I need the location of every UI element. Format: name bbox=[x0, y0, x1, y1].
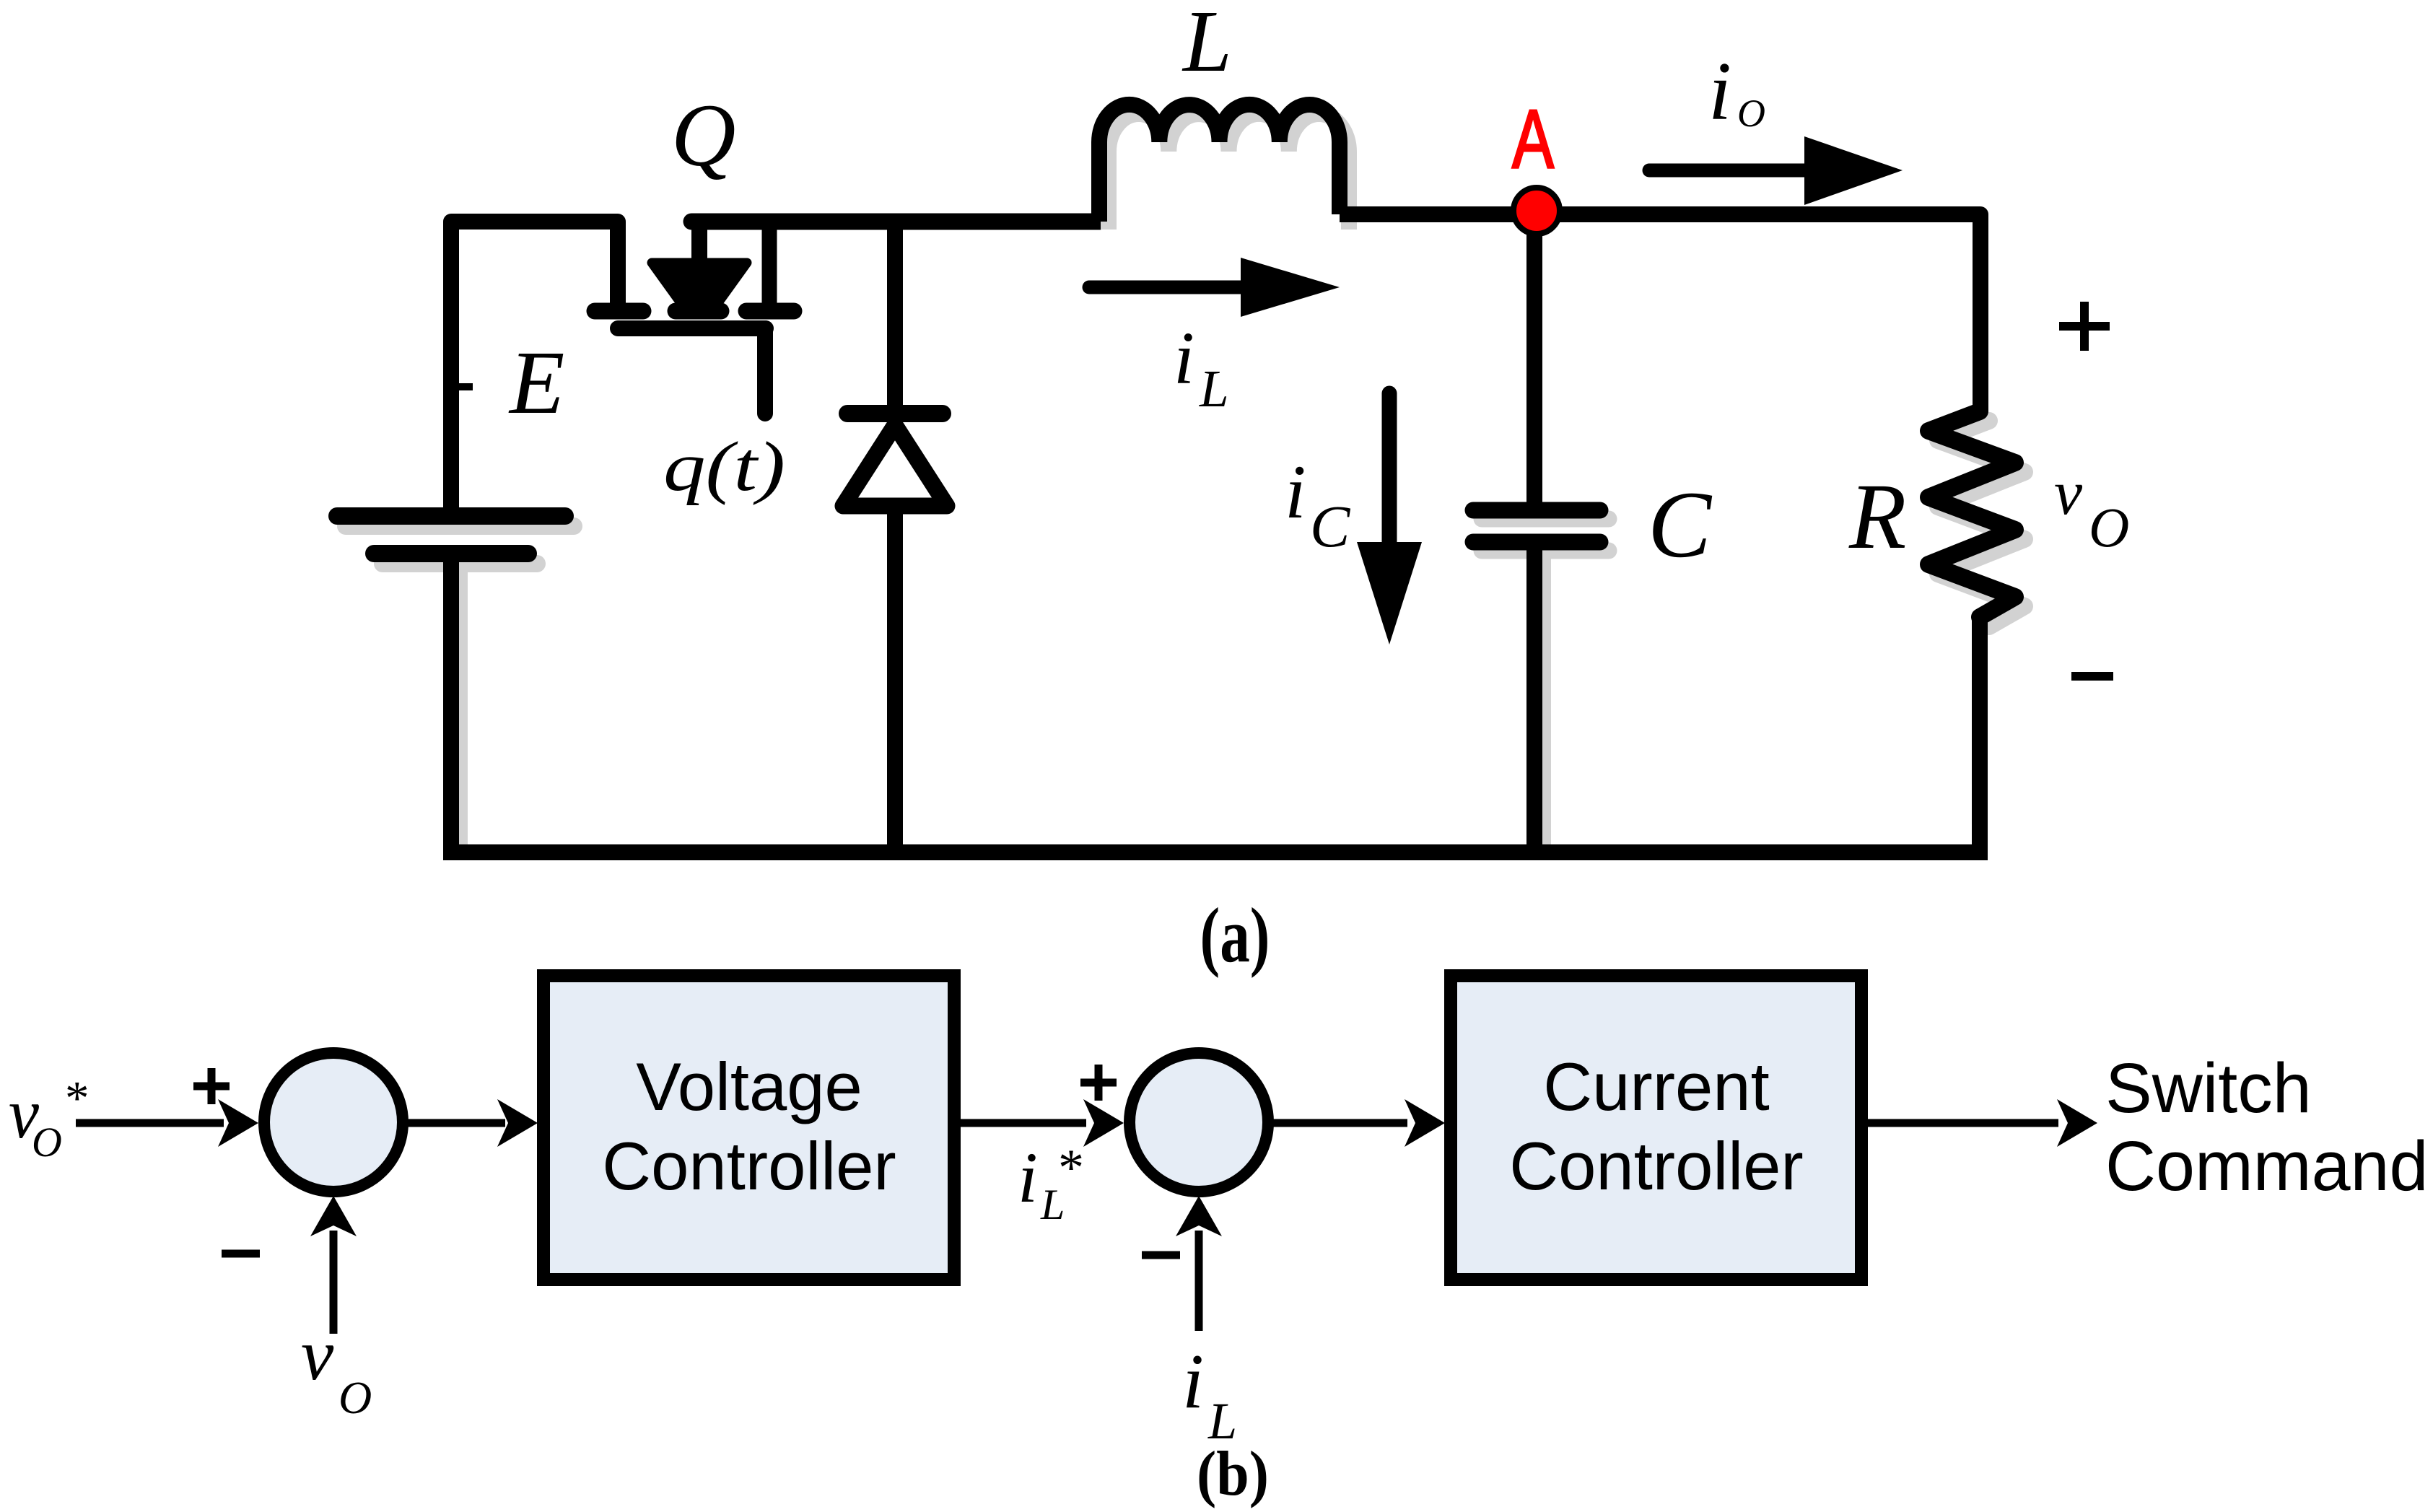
svg-text:L: L bbox=[1181, 0, 1232, 90]
current arrow iO bbox=[1649, 136, 1903, 205]
svg-text:O: O bbox=[2089, 496, 2129, 559]
right contact bar bbox=[746, 303, 794, 320]
gate lead down bbox=[757, 328, 773, 414]
wire node A to capacitor bbox=[1526, 214, 1542, 505]
svg-text:Controller: Controller bbox=[602, 1128, 896, 1204]
svg-text:A: A bbox=[1512, 93, 1554, 185]
svg-text:Switch: Switch bbox=[2105, 1049, 2312, 1127]
summing junction S2 bbox=[1130, 1053, 1268, 1192]
svg-text:Current: Current bbox=[1543, 1049, 1769, 1124]
wire resistor to bottom bbox=[1972, 617, 1988, 860]
wire input arrow to S1 bbox=[76, 1099, 258, 1147]
capacitor C bbox=[1473, 510, 1609, 852]
svg-text:i: i bbox=[1285, 450, 1306, 534]
svg-text:q(t): q(t) bbox=[663, 428, 785, 505]
svg-text:Q: Q bbox=[671, 86, 736, 185]
diode cathode bar bbox=[847, 405, 943, 422]
center contact bar bbox=[676, 303, 721, 320]
label minus at S1 bbox=[222, 1250, 260, 1258]
right vertical bbox=[762, 222, 777, 307]
label + output bbox=[2059, 302, 2110, 351]
wire bottom bbox=[443, 844, 1988, 860]
diode bottom lead bbox=[887, 505, 903, 860]
wire battery to bottom bbox=[452, 570, 468, 852]
svg-text:i: i bbox=[1182, 1339, 1204, 1425]
resistor R bbox=[1929, 411, 2024, 626]
inductor L bbox=[1099, 105, 1349, 230]
label minus at S2 bbox=[1142, 1251, 1180, 1259]
svg-text:Command: Command bbox=[2105, 1127, 2428, 1205]
svg-text:(b): (b) bbox=[1197, 1439, 1269, 1509]
svg-text:i: i bbox=[1174, 317, 1194, 400]
feedback arrow vO into S1 bbox=[310, 1196, 357, 1334]
wire Voltage Controller to S2 bbox=[960, 1099, 1124, 1147]
svg-text:O: O bbox=[32, 1119, 62, 1166]
wire Current Controller output arrow bbox=[1867, 1099, 2097, 1147]
battery E bbox=[337, 516, 574, 564]
svg-text:L: L bbox=[1199, 359, 1229, 418]
svg-text:*: * bbox=[65, 1072, 89, 1125]
svg-text:*: * bbox=[1058, 1139, 1084, 1197]
transistor Q bbox=[595, 222, 794, 414]
svg-text:i: i bbox=[1018, 1137, 1038, 1218]
node A bbox=[1513, 188, 1560, 234]
current arrow iC bbox=[1357, 393, 1422, 644]
wire S2 to Current Controller bbox=[1268, 1099, 1445, 1147]
label + at S1 bbox=[193, 1068, 230, 1104]
diode triangle bbox=[843, 425, 947, 506]
svg-text:R: R bbox=[1848, 465, 1906, 569]
svg-text:O: O bbox=[338, 1372, 372, 1423]
arrow head trapezoid bbox=[652, 263, 747, 304]
wire capacitor to bottom bbox=[1526, 547, 1542, 860]
svg-text:v: v bbox=[2054, 458, 2083, 528]
svg-text:Voltage: Voltage bbox=[636, 1049, 862, 1124]
label minus output bbox=[2071, 672, 2113, 681]
svg-text:C: C bbox=[1310, 493, 1351, 559]
wire top-left from battery to transistor bbox=[451, 222, 618, 516]
battery polarity tick bbox=[459, 383, 473, 390]
feedback arrow iL into S2 bbox=[1176, 1196, 1222, 1331]
wire S1 to Voltage Controller bbox=[403, 1099, 538, 1147]
summing junction S1 bbox=[264, 1053, 403, 1192]
svg-text:i: i bbox=[1708, 45, 1731, 137]
svg-text:C: C bbox=[1648, 471, 1713, 577]
block Current Controller bbox=[1451, 976, 1861, 1280]
arrow stem bbox=[691, 222, 707, 268]
svg-text:O: O bbox=[1737, 92, 1765, 135]
diode top lead bbox=[887, 214, 903, 408]
wire inductor to corner and down to resistor bbox=[1340, 214, 1980, 413]
current arrow iL bbox=[1089, 258, 1340, 317]
svg-text:E: E bbox=[508, 333, 564, 433]
diode D bbox=[843, 214, 947, 860]
svg-text:v: v bbox=[301, 1314, 334, 1396]
svg-text:(a): (a) bbox=[1200, 893, 1270, 979]
block Voltage Controller bbox=[543, 976, 954, 1280]
left contact bar bbox=[595, 303, 643, 320]
gate bar bbox=[618, 320, 766, 336]
svg-text:Controller: Controller bbox=[1509, 1128, 1804, 1204]
wire top main (transistor to inductor) bbox=[691, 214, 1099, 230]
label + at S2 bbox=[1080, 1065, 1117, 1101]
